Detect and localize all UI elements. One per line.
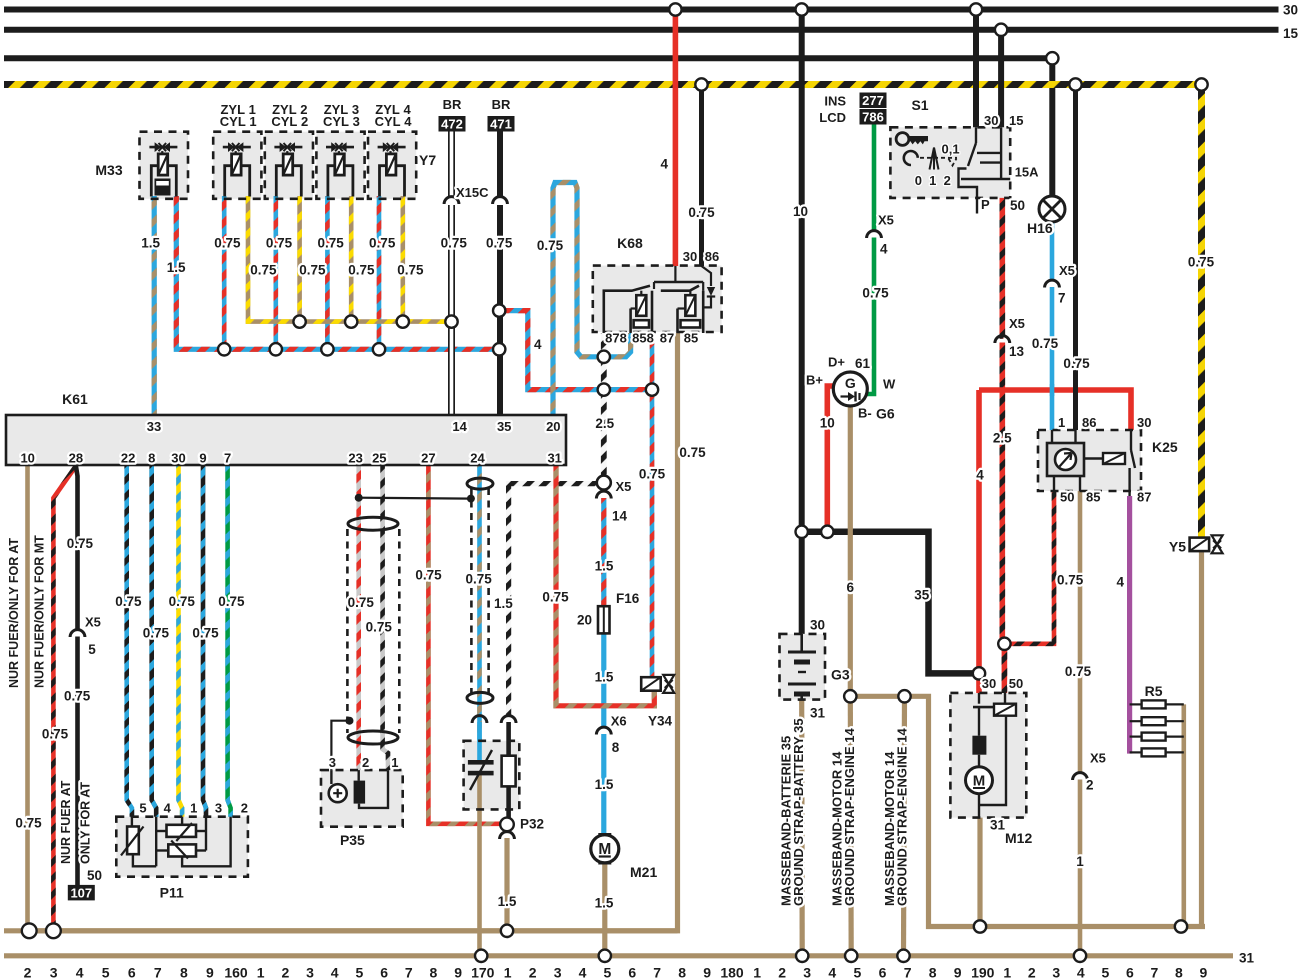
svg-text:7: 7	[154, 965, 162, 979]
svg-text:3: 3	[803, 965, 811, 979]
svg-text:P35: P35	[340, 832, 365, 848]
svg-text:M33: M33	[95, 162, 122, 178]
svg-text:GROUND STRAP-ENGINE 14: GROUND STRAP-ENGINE 14	[842, 728, 857, 906]
svg-text:3: 3	[1052, 965, 1060, 979]
svg-text:INS: INS	[824, 94, 846, 109]
svg-text:P32: P32	[520, 817, 544, 832]
svg-text:D+: D+	[828, 355, 845, 370]
box fill P35	[321, 770, 403, 827]
svg-text:5: 5	[1102, 965, 1110, 979]
motor M21	[598, 833, 611, 839]
connector code 786	[860, 109, 887, 125]
S1 position symbol	[930, 148, 939, 170]
svg-text:14: 14	[612, 508, 628, 523]
junction B+ junction	[821, 526, 833, 538]
connector X5 k25-85	[1073, 773, 1088, 780]
svg-text:F16: F16	[616, 591, 640, 606]
svg-text:0.75: 0.75	[397, 262, 424, 277]
dashed border Y7 ZYL4	[368, 132, 416, 199]
svg-text:X5: X5	[85, 614, 101, 629]
svg-text:86: 86	[705, 249, 719, 264]
connector code 472	[439, 116, 466, 132]
svg-text:0 1 2: 0 1 2	[915, 173, 951, 188]
wire M21->bus brown 1.5	[602, 862, 607, 956]
svg-text:2.5: 2.5	[993, 431, 1012, 446]
svg-text:0.75: 0.75	[679, 445, 706, 460]
connector X5 (circle+arc)	[597, 476, 611, 490]
connector conn under shield L	[472, 716, 487, 723]
svg-text:3: 3	[554, 965, 562, 979]
svg-text:4: 4	[76, 965, 84, 979]
wire strap2 brown	[848, 696, 854, 954]
wire black to K25:86	[1073, 85, 1078, 431]
dashed border Y7 ZYL1	[213, 132, 261, 199]
svg-text:B+: B+	[806, 373, 823, 388]
svg-text:6: 6	[879, 965, 887, 979]
junction branch4 to 87	[646, 383, 658, 395]
connector code 471	[488, 116, 515, 132]
svg-text:2: 2	[241, 801, 248, 816]
svg-text:0.75: 0.75	[1063, 356, 1090, 371]
svg-text:S1: S1	[911, 97, 928, 113]
wire G6 B+ red 10	[824, 388, 830, 532]
wire ZYL2 right 0.75 brown/yellow	[297, 196, 302, 322]
wire K68:878 black/white 2.5	[601, 333, 607, 477]
svg-text:87: 87	[1137, 490, 1151, 505]
svg-text:85: 85	[1086, 490, 1100, 505]
svg-text:15: 15	[1283, 26, 1299, 41]
box fill K68	[593, 266, 722, 332]
svg-text:878: 878	[605, 330, 627, 345]
connector conn under shield R	[501, 716, 516, 723]
dashed border M12	[950, 693, 1026, 818]
svg-text:2: 2	[282, 965, 290, 979]
svg-text:X5: X5	[1090, 751, 1106, 766]
svg-text:30: 30	[1137, 415, 1151, 430]
svg-text:35: 35	[497, 419, 511, 434]
wire H16 blue upper	[1050, 222, 1055, 281]
box fill G3	[780, 634, 826, 700]
connector X5 h16	[1045, 280, 1060, 287]
dashed border M33	[140, 132, 189, 199]
svg-text:Y7: Y7	[419, 152, 436, 168]
svg-text:1: 1	[391, 755, 398, 770]
svg-text:5: 5	[604, 965, 612, 979]
svg-text:472: 472	[441, 116, 463, 131]
svg-text:4: 4	[331, 965, 339, 979]
svg-text:X5: X5	[616, 479, 632, 494]
battery G3	[800, 634, 803, 651]
svg-text:0.75: 0.75	[192, 625, 219, 640]
ignition switch S1 internals	[896, 133, 909, 146]
svg-text:M: M	[973, 773, 986, 790]
svg-text:7: 7	[405, 965, 413, 979]
svg-text:0.75: 0.75	[169, 594, 196, 609]
svg-text:1: 1	[1003, 965, 1011, 979]
P35 internals	[329, 784, 347, 802]
svg-text:8: 8	[612, 740, 620, 755]
wire X5->F16 red/blue 1.5	[601, 498, 606, 606]
wire K25:50 red/black 0.75	[1004, 491, 1054, 644]
svg-text:P11: P11	[160, 885, 184, 901]
junction busYB K68:86	[695, 78, 707, 90]
svg-text:0.75: 0.75	[115, 594, 142, 609]
svg-text:31: 31	[810, 706, 826, 721]
connector X15C b	[493, 197, 508, 204]
wire ZYL1 left 0.75 blue/red	[222, 196, 227, 349]
wire R5 rail brown	[1182, 704, 1187, 926]
svg-text:CYL 4: CYL 4	[375, 114, 413, 129]
wire B+ elbow	[827, 386, 833, 390]
junction gnd10	[22, 923, 37, 938]
wire Y5 brown down	[1199, 552, 1204, 927]
svg-text:0.75: 0.75	[64, 689, 91, 704]
svg-text:8: 8	[1175, 965, 1183, 979]
junction gnd M21	[599, 950, 611, 962]
svg-text:50: 50	[1010, 198, 1025, 213]
wire ZYL4 right 0.75 brown/yellow	[400, 196, 405, 322]
svg-text:0.75: 0.75	[218, 594, 245, 609]
svg-text:GROUND STRAP-ENGINE 14: GROUND STRAP-ENGINE 14	[895, 728, 910, 906]
svg-text:K61: K61	[62, 391, 88, 407]
svg-text:4: 4	[880, 242, 888, 257]
wire K61:27 red/brown 0.75	[428, 466, 500, 824]
connector X6	[596, 727, 611, 734]
wire black to S1:15	[998, 30, 1004, 128]
wire M33 left 1.5 blue/brown to K61:33	[152, 196, 157, 414]
box fill P32CAP	[464, 741, 520, 810]
wire bus15	[4, 27, 1279, 33]
dashed border K25	[1038, 430, 1141, 491]
box fill M12	[950, 693, 1026, 818]
svg-text:858: 858	[632, 330, 654, 345]
svg-text:15A: 15A	[1015, 164, 1039, 179]
svg-text:8: 8	[180, 965, 188, 979]
svg-text:30: 30	[982, 676, 996, 691]
dashed border K68	[593, 266, 722, 332]
junction 931 R5	[1175, 920, 1187, 932]
junction P32	[500, 818, 514, 832]
wire S1:50 red/black 2.5	[1002, 198, 1003, 336]
svg-text:2: 2	[1028, 965, 1036, 979]
junction bus-322 at 403	[397, 315, 409, 327]
svg-text:1.5: 1.5	[494, 596, 513, 611]
wire blue over red	[1050, 384, 1055, 396]
svg-text:0.75: 0.75	[42, 727, 69, 742]
svg-text:0.75: 0.75	[639, 466, 666, 481]
shield P35	[346, 529, 349, 733]
svg-text:Y34: Y34	[648, 714, 673, 729]
box fill P11	[116, 817, 248, 877]
svg-text:1: 1	[257, 965, 265, 979]
junction on BR471 branch	[493, 304, 505, 316]
svg-text:9: 9	[199, 451, 206, 466]
svg-text:0.75: 0.75	[1065, 664, 1092, 679]
wire red horiz	[979, 390, 1131, 430]
wire K61:24 blue/brown	[477, 466, 482, 741]
svg-text:30: 30	[984, 113, 998, 128]
box fill Y7 ZYL3	[316, 132, 364, 199]
Y7 injector ZYL3 symbol	[326, 146, 354, 149]
box fill Y7 ZYL2	[265, 132, 313, 199]
svg-text:0.75: 0.75	[299, 262, 326, 277]
junction bus-349 at 276	[270, 343, 282, 355]
svg-text:50: 50	[87, 868, 102, 883]
svg-text:ONLY FOR AT: ONLY FOR AT	[79, 782, 93, 864]
junction gnd G3	[796, 950, 808, 962]
svg-text:1.5: 1.5	[595, 559, 614, 574]
svg-text:0.75: 0.75	[1188, 255, 1215, 270]
box fill S1	[890, 127, 1010, 198]
wire bus30	[4, 7, 1279, 13]
junction gnd28	[46, 923, 61, 938]
connector code 107	[68, 885, 95, 901]
svg-text:4: 4	[1116, 575, 1124, 590]
wire cap in blue	[477, 722, 482, 762]
svg-text:H16: H16	[1027, 220, 1053, 236]
svg-text:0.75: 0.75	[1057, 573, 1084, 588]
wire red 4 K25:30	[976, 390, 982, 673]
fuse F16	[603, 606, 605, 633]
svg-text:5: 5	[102, 965, 110, 979]
svg-text:22: 22	[121, 451, 135, 466]
svg-text:CYL 3: CYL 3	[323, 114, 360, 129]
dashed border P11	[116, 817, 248, 877]
connector X5 left	[70, 630, 85, 637]
wire K61:10 brown 0.75	[25, 466, 30, 931]
wire branch 4 red/blue	[499, 311, 652, 390]
wire black 10	[799, 10, 805, 532]
svg-text:BR: BR	[492, 97, 511, 112]
svg-text:NUR FUER/ONLY FOR AT: NUR FUER/ONLY FOR AT	[7, 538, 21, 688]
starter M12 internals	[978, 693, 980, 704]
junction bus-349 at 327	[321, 343, 333, 355]
svg-text:5: 5	[88, 642, 96, 657]
svg-text:X15C: X15C	[456, 185, 489, 200]
shield drain to P35 pin3	[331, 721, 349, 770]
svg-text:27: 27	[421, 451, 435, 466]
junction bus3 corner	[1046, 52, 1058, 64]
wire K61:22->5	[127, 466, 132, 817]
junction gnd X5-2	[1074, 950, 1086, 962]
svg-text:0.75: 0.75	[317, 235, 344, 250]
svg-text:0,1: 0,1	[942, 141, 960, 156]
svg-text:CYL 2: CYL 2	[271, 114, 308, 129]
junction bus15 S1:15	[995, 24, 1007, 36]
junction bus30 red4	[669, 3, 681, 15]
dashed border Y7 ZYL3	[316, 132, 364, 199]
svg-text:1: 1	[504, 965, 512, 979]
svg-text:50: 50	[1060, 490, 1074, 505]
svg-text:1.5: 1.5	[595, 670, 614, 685]
svg-text:0.75: 0.75	[348, 262, 375, 277]
svg-text:2: 2	[362, 755, 369, 770]
svg-text:X6: X6	[611, 714, 627, 729]
svg-text:1.5: 1.5	[595, 777, 614, 792]
ECU K61	[6, 415, 566, 465]
svg-text:P: P	[981, 197, 990, 212]
svg-text:W: W	[883, 376, 896, 391]
wire K68:85 brown	[29, 333, 677, 931]
svg-text:160: 160	[224, 965, 248, 979]
svg-text:180: 180	[720, 965, 744, 979]
junction 35/red M12:30	[973, 667, 985, 679]
wire K61:8->4	[152, 466, 157, 817]
svg-text:3: 3	[50, 965, 58, 979]
wire K61:9->3	[203, 466, 206, 817]
svg-text:786: 786	[862, 110, 884, 125]
wire red 4 to K68:30	[673, 10, 679, 267]
dashed border Y7 ZYL2	[265, 132, 313, 199]
junction bus-349 at 224	[218, 343, 230, 355]
wire black to K68:86	[699, 85, 704, 267]
M33 pump block	[155, 179, 171, 196]
svg-text:4: 4	[534, 337, 542, 352]
svg-text:13: 13	[1009, 344, 1025, 359]
junction gnd strap2	[845, 950, 857, 962]
wire BR472 white inner	[450, 130, 454, 197]
svg-text:1: 1	[753, 965, 761, 979]
svg-text:4: 4	[164, 801, 172, 816]
valve Y34	[641, 677, 661, 691]
svg-text:87: 87	[660, 330, 674, 345]
junction 931 M12	[974, 920, 986, 932]
wire K61:23 red/gray	[356, 466, 361, 770]
wire M33 right 1.5 blue/red to bus	[176, 196, 499, 349]
svg-text:0.75: 0.75	[1032, 336, 1059, 351]
svg-text:30: 30	[171, 451, 185, 466]
wire S1:50 red/black lower	[1002, 343, 1004, 644]
svg-text:86: 86	[1082, 415, 1096, 430]
svg-text:7: 7	[224, 451, 231, 466]
svg-text:4: 4	[828, 965, 836, 979]
svg-text:7: 7	[1058, 290, 1066, 305]
junction gnd cap	[475, 950, 487, 962]
svg-text:0.75: 0.75	[465, 572, 492, 587]
junction G6/G3 junction	[796, 526, 808, 538]
wire black to S1:30	[973, 10, 979, 128]
connector X5 s1-50	[995, 336, 1010, 343]
box fill Y7 ZYL1	[213, 132, 261, 199]
svg-text:CYL 1: CYL 1	[220, 114, 257, 129]
svg-text:K68: K68	[617, 235, 643, 251]
svg-text:0.75: 0.75	[441, 236, 468, 251]
junction yellow-brown bus on white wire	[445, 315, 457, 327]
P32 capacitor internals	[468, 760, 494, 765]
svg-text:33: 33	[147, 419, 161, 434]
svg-text:2: 2	[24, 965, 32, 979]
svg-text:30: 30	[1283, 3, 1298, 18]
dashed border S1	[890, 127, 1010, 198]
svg-text:25: 25	[372, 451, 386, 466]
svg-text:5: 5	[356, 965, 364, 979]
wire BR472 white inner2	[450, 205, 454, 414]
wire M12:31 brown	[977, 818, 982, 927]
wire BR472 white outer2	[448, 205, 455, 414]
junction bus-322 at 351	[345, 315, 357, 327]
wire engine ground horiz	[850, 696, 1205, 926]
wire BR471 black upper	[497, 130, 503, 197]
junction bus-349 end on BR471	[493, 343, 505, 355]
junction gnd strap3	[897, 950, 909, 962]
dashed border P32CAP	[464, 741, 520, 810]
svg-text:9: 9	[954, 965, 962, 979]
connector X5 green	[867, 231, 882, 238]
lamp H16	[1039, 196, 1065, 222]
svg-text:8: 8	[430, 965, 438, 979]
svg-text:15: 15	[1009, 113, 1023, 128]
svg-text:1: 1	[1076, 854, 1084, 869]
valve Y5	[1190, 538, 1210, 552]
box fill M33	[140, 132, 189, 199]
svg-text:0.75: 0.75	[415, 568, 442, 583]
svg-text:1.5: 1.5	[167, 260, 186, 275]
svg-text:8: 8	[148, 451, 155, 466]
wire K25:85 brown lower	[1078, 780, 1083, 956]
junction bus30 S1:30	[970, 3, 982, 15]
svg-text:BR: BR	[443, 97, 462, 112]
wire ZYL3 left 0.75 blue/red	[325, 196, 330, 349]
svg-text:31: 31	[547, 451, 561, 466]
svg-text:4: 4	[976, 468, 984, 483]
wire G3:31 brown	[799, 700, 805, 955]
svg-text:10: 10	[20, 451, 34, 466]
svg-text:3: 3	[306, 965, 314, 979]
wire strap3 brown	[904, 696, 905, 954]
wire P32 brown 1.5	[504, 838, 509, 931]
svg-text:7: 7	[904, 965, 912, 979]
svg-text:6: 6	[1126, 965, 1134, 979]
wire F16->X6 blue 1.5	[601, 633, 606, 727]
svg-text:9: 9	[206, 965, 214, 979]
svg-text:5: 5	[854, 965, 862, 979]
svg-text:35: 35	[914, 587, 930, 602]
svg-text:G: G	[845, 375, 856, 391]
svg-text:G3: G3	[831, 667, 850, 683]
svg-text:2.5: 2.5	[595, 416, 614, 431]
svg-text:14: 14	[452, 419, 467, 434]
svg-text:0.75: 0.75	[143, 625, 170, 640]
dashed border G3	[780, 634, 826, 700]
wire ground bus upper	[4, 928, 678, 933]
wire X6->M21 blue 1.5	[601, 734, 606, 836]
svg-text:0.75: 0.75	[862, 286, 889, 301]
svg-text:4: 4	[579, 965, 587, 979]
svg-text:1.5: 1.5	[498, 894, 517, 909]
M33 injector symbol	[149, 146, 177, 149]
svg-text:X5: X5	[878, 213, 894, 228]
wire K61:25 gray/black	[383, 466, 388, 770]
svg-text:M21: M21	[630, 864, 657, 880]
svg-text:6: 6	[628, 965, 636, 979]
wire black G3:30	[799, 532, 805, 634]
wire K25:85 brown 0.75	[1078, 491, 1083, 773]
wire G6 B- brown 6	[848, 406, 853, 696]
svg-text:2: 2	[1086, 778, 1094, 793]
svg-text:0.75: 0.75	[542, 590, 569, 605]
svg-text:LCD: LCD	[819, 110, 846, 125]
svg-text:31: 31	[1239, 951, 1255, 966]
svg-text:4: 4	[1077, 965, 1085, 979]
wire K61:30->1	[179, 466, 183, 817]
svg-text:10: 10	[793, 204, 808, 219]
wire ZYL4 left 0.75 blue/red	[377, 196, 382, 349]
wire resistor feed black	[506, 722, 511, 757]
svg-text:471: 471	[490, 116, 512, 131]
wire x5 link black/white	[509, 484, 597, 717]
svg-text:9: 9	[703, 965, 711, 979]
connector X15C a	[444, 197, 459, 204]
